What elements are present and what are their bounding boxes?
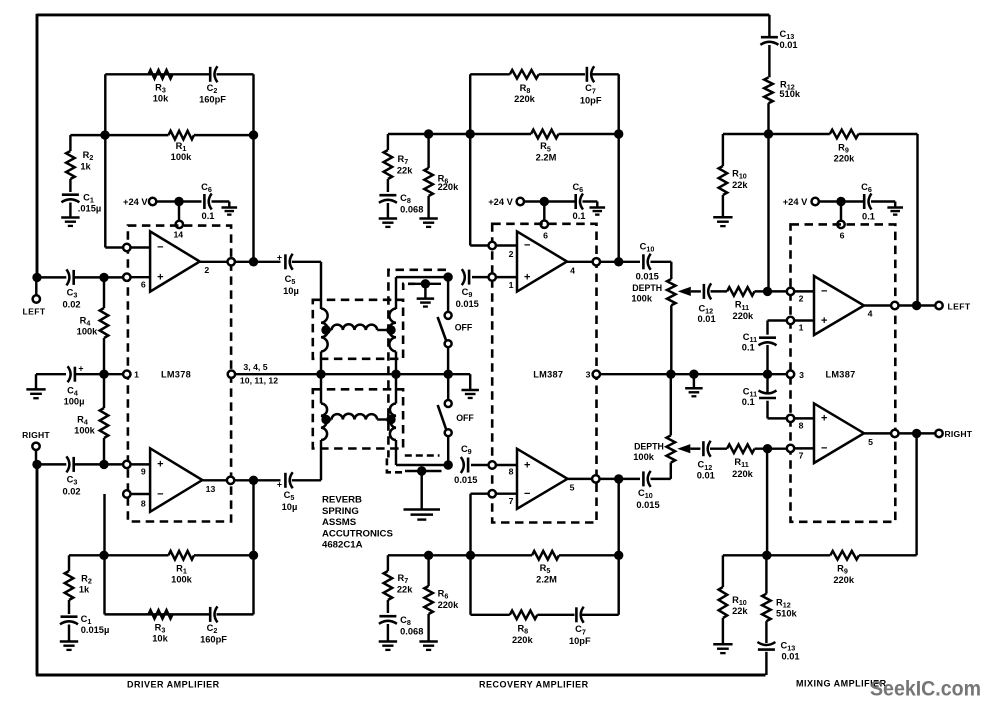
capacitor C13 (upper) bbox=[761, 36, 778, 39]
ground C6 recovery bbox=[596, 202, 598, 208]
junction R12/R9 node lower bbox=[762, 551, 771, 560]
wire R12 node to R11 upper bbox=[767, 134, 769, 291]
wire bus to switch lower bbox=[447, 374, 449, 400]
wire vertical right feedback lower bbox=[252, 480, 254, 614]
svg-text:OFF: OFF bbox=[455, 322, 473, 332]
svg-text:LEFT: LEFT bbox=[22, 307, 45, 317]
wire R12 to node upper bbox=[767, 103, 769, 134]
op-amp U2a LM387 upper bbox=[517, 231, 567, 291]
ground C8 lower bbox=[387, 624, 389, 642]
junction spring left upper bbox=[321, 325, 330, 334]
spring coil upper bbox=[326, 329, 332, 331]
svg-text:DEPTH: DEPTH bbox=[632, 283, 662, 293]
capacitor C3 (upper) bbox=[72, 270, 75, 285]
resistor R2 (lower) bbox=[68, 555, 70, 571]
resistor R10 (upper) bbox=[722, 134, 724, 166]
wire pin3 recovery to mixing bus bbox=[600, 373, 787, 375]
svg-text:0.02: 0.02 bbox=[62, 300, 80, 310]
pin circle 4 mixing bbox=[891, 302, 898, 309]
junction RIGHT input bbox=[32, 460, 41, 469]
svg-text:1: 1 bbox=[799, 323, 804, 333]
svg-text:3: 3 bbox=[586, 370, 591, 380]
svg-text:6: 6 bbox=[141, 279, 146, 289]
resistor R1 (lower) bbox=[169, 551, 195, 560]
wire pin1 to C11 upper bbox=[768, 319, 787, 321]
svg-text:DEPTH: DEPTH bbox=[634, 442, 664, 452]
junction case ground upper bbox=[421, 279, 430, 288]
wire feedback to minus recovery upper bbox=[469, 134, 471, 246]
junction output/R9 lower bbox=[912, 429, 921, 438]
op-amp U3a LM387 mixing upper bbox=[814, 276, 864, 335]
ground reverb case upper bbox=[424, 284, 426, 299]
wire right winding to bus upper bbox=[395, 352, 397, 375]
wire vertical right feedback upper (C2 row to output node) bbox=[252, 74, 254, 262]
pin circle output 13 bbox=[227, 477, 234, 484]
pin circle 2 recovery bbox=[489, 242, 496, 249]
ground C6 mixing bbox=[894, 202, 896, 208]
resistor R5 (lower) bbox=[532, 551, 559, 560]
resistor R11 (upper) bbox=[727, 287, 755, 296]
svg-text:+: + bbox=[821, 315, 827, 327]
svg-text:−: − bbox=[157, 242, 163, 254]
junction R6 top lower bbox=[424, 551, 433, 560]
svg-text:ASSMS: ASSMS bbox=[322, 517, 357, 528]
ground C1 upper bbox=[69, 203, 71, 218]
svg-text:0.1: 0.1 bbox=[742, 342, 755, 352]
ground C6 driver bbox=[228, 202, 230, 208]
wire R11 to pin2 mixing bbox=[755, 290, 787, 292]
capacitor C2 (upper) bbox=[209, 67, 212, 82]
svg-text:100k: 100k bbox=[171, 574, 193, 584]
resistor R3 (upper) bbox=[149, 70, 173, 79]
wire C4 to pin1 bbox=[75, 373, 123, 375]
wire center bus bbox=[235, 373, 470, 375]
svg-text:0.015: 0.015 bbox=[636, 500, 659, 510]
wire R9 to output vertical upper bbox=[916, 134, 918, 306]
terminal +24V mixing bbox=[812, 198, 819, 205]
svg-text:0.1: 0.1 bbox=[742, 397, 755, 407]
wire R2 tap upper bbox=[70, 134, 105, 136]
svg-text:+24 V: +24 V bbox=[123, 197, 148, 207]
capacitor C11 (lower) bbox=[759, 397, 776, 400]
wire top border to C13 bbox=[768, 15, 770, 37]
resistor R4 (upper) bbox=[103, 277, 105, 308]
svg-text:+24 V: +24 V bbox=[488, 197, 513, 207]
wire minus to triangle lower bbox=[131, 493, 151, 495]
pin circle plus upper LM378 (pin 6) bbox=[123, 274, 130, 281]
wire C10 to pot upper bbox=[651, 261, 672, 263]
wire minus to triangle mixing lower bbox=[794, 447, 814, 449]
ground reverb case lower bbox=[420, 471, 422, 510]
svg-text:0.068: 0.068 bbox=[400, 205, 423, 215]
svg-text:+: + bbox=[821, 413, 827, 425]
wire output upper LM378 bbox=[200, 261, 228, 263]
potentiometer DEPTH 100k upper bbox=[667, 279, 676, 305]
svg-text:REVERB: REVERB bbox=[322, 495, 362, 506]
potentiometer DEPTH 100k lower bbox=[667, 435, 676, 462]
ground C8 upper bbox=[387, 203, 389, 219]
svg-text:+: + bbox=[157, 459, 163, 471]
capacitor C12 (upper) bbox=[703, 284, 706, 299]
svg-text:5: 5 bbox=[570, 482, 575, 492]
capacitor C1 (lower) bbox=[61, 615, 78, 618]
pin circle 8 mixing bbox=[787, 415, 794, 422]
svg-text:5: 5 bbox=[868, 437, 873, 447]
svg-text:10µ: 10µ bbox=[282, 502, 298, 512]
svg-text:−: − bbox=[524, 240, 530, 252]
wire LEFT input row bbox=[37, 276, 66, 278]
svg-text:1: 1 bbox=[134, 370, 139, 380]
pin circle 7 recovery bbox=[489, 490, 496, 497]
pin circle 9 (plus lower LM378) bbox=[123, 461, 130, 468]
svg-text:6: 6 bbox=[543, 231, 548, 241]
coil input left winding upper bbox=[321, 309, 328, 352]
wire plus to triangle lower bbox=[131, 463, 151, 465]
wire C9 to pin8 recovery bbox=[471, 464, 488, 466]
pin circle 5 mixing bbox=[891, 430, 898, 437]
svg-text:100k: 100k bbox=[171, 152, 193, 162]
svg-text:22k: 22k bbox=[397, 585, 413, 595]
wire output to C5 upper bbox=[235, 261, 281, 263]
svg-text:0.01: 0.01 bbox=[780, 40, 798, 50]
ground C4 bbox=[35, 374, 37, 389]
svg-text:0.015: 0.015 bbox=[456, 299, 479, 309]
svg-text:10k: 10k bbox=[152, 634, 168, 644]
svg-text:0.015µ: 0.015µ bbox=[81, 625, 110, 635]
wire R10 row lower bbox=[723, 554, 767, 556]
svg-text:.015µ: .015µ bbox=[78, 204, 101, 214]
svg-text:0.1: 0.1 bbox=[202, 211, 215, 221]
wire output to C5 lower bbox=[234, 479, 280, 481]
svg-text:510k: 510k bbox=[779, 89, 801, 99]
wire minus to triangle upper bbox=[131, 246, 151, 248]
capacitor C8 (lower) bbox=[379, 615, 396, 618]
junction R5/C7 lower bbox=[614, 551, 623, 560]
wire R12 node to R11 lower bbox=[766, 449, 768, 556]
capacitor C5 (lower) bbox=[284, 473, 287, 488]
junction R5/C7 upper bbox=[614, 129, 623, 138]
svg-text:0.015: 0.015 bbox=[636, 271, 659, 281]
wire C12 to R11 lower bbox=[710, 447, 727, 449]
svg-text:+: + bbox=[78, 364, 83, 374]
svg-text:10, 11, 12: 10, 11, 12 bbox=[240, 376, 278, 386]
wire upper R3/C2 feedback row bbox=[105, 73, 209, 75]
wire LEFT terminal stub bbox=[35, 277, 37, 295]
svg-text:9: 9 bbox=[141, 466, 146, 476]
wire minus to triangle mixing upper bbox=[794, 290, 814, 292]
svg-text:10k: 10k bbox=[153, 94, 169, 104]
wire bias row lower bbox=[388, 554, 471, 556]
svg-text:SeekIC.com: SeekIC.com bbox=[870, 677, 981, 701]
junction R1 right lower bbox=[249, 551, 258, 560]
svg-text:−: − bbox=[821, 442, 827, 454]
wire output to C10 upper bbox=[600, 261, 640, 263]
pin circle 7 mixing bbox=[787, 445, 794, 452]
wire bus to C11 lower bbox=[766, 374, 768, 393]
svg-text:RECOVERY AMPLIFIER: RECOVERY AMPLIFIER bbox=[479, 679, 589, 689]
svg-text:OFF: OFF bbox=[456, 413, 474, 423]
op-amp U2b LM387 lower bbox=[517, 449, 568, 509]
wire R5 row upper bbox=[470, 133, 531, 135]
junction R1 right upper bbox=[249, 130, 258, 139]
junction pin6 tap mixing bbox=[836, 197, 845, 206]
wire R11 to pin7 mixing bbox=[755, 447, 787, 449]
capacitor C6 (mixing) bbox=[863, 194, 866, 209]
svg-text:2.2M: 2.2M bbox=[536, 153, 557, 163]
terminal RIGHT output bbox=[935, 430, 942, 437]
pin circle 8 (minus lower LM378) bbox=[123, 490, 130, 497]
wire R2 to C1 lower bbox=[68, 600, 70, 614]
resistor R9 (lower) bbox=[830, 551, 859, 560]
wire C11 to bus upper bbox=[766, 345, 768, 374]
op-amp U3b LM387 mixing lower bbox=[814, 403, 864, 463]
resistor R12 (lower) bbox=[765, 555, 767, 593]
wire C9 to pin1 recovery bbox=[472, 276, 489, 278]
wire RIGHT input row bbox=[37, 463, 66, 465]
svg-text:LM378: LM378 bbox=[161, 370, 191, 380]
junction pin6 tap recovery bbox=[540, 197, 549, 206]
svg-text:6: 6 bbox=[840, 231, 845, 241]
junction bias/feedback upper bbox=[466, 129, 475, 138]
wire pot to bus lower bbox=[670, 374, 672, 435]
svg-text:7: 7 bbox=[799, 451, 804, 461]
op-amp U1a LM378 upper bbox=[150, 231, 200, 291]
dashed box reverb output transducer bbox=[313, 389, 403, 448]
svg-text:+24 V: +24 V bbox=[783, 197, 808, 207]
wire pin14 stub bbox=[178, 202, 180, 225]
wire top border (LEFT input to C13 upper) bbox=[37, 13, 769, 16]
svg-text:SPRING: SPRING bbox=[322, 506, 359, 517]
wire C11 to pin8 lower bbox=[766, 401, 768, 419]
wire plus to triangle upper bbox=[131, 276, 151, 278]
ground R6 lower bbox=[427, 637, 429, 642]
resistor R10 (lower) bbox=[722, 555, 724, 587]
junction LEFT input bbox=[32, 273, 41, 282]
resistor R4 (lower) bbox=[103, 374, 105, 408]
svg-text:3, 4, 5: 3, 4, 5 bbox=[243, 362, 267, 372]
wire right winding to bus lower bbox=[395, 374, 397, 403]
junction spring right lower bbox=[386, 415, 395, 424]
junction output/R5 lower bbox=[614, 474, 623, 483]
wire C10 to pot lower bbox=[651, 478, 671, 480]
svg-text:100k: 100k bbox=[77, 327, 99, 337]
svg-text:0.068: 0.068 bbox=[400, 627, 423, 637]
svg-text:4: 4 bbox=[570, 266, 575, 276]
wire C2 to right vertical upper bbox=[217, 73, 254, 75]
capacitor C7 (lower) bbox=[575, 607, 578, 622]
wire output lower LM378 bbox=[202, 479, 227, 481]
ground center bus bbox=[469, 374, 471, 390]
junction C9 lower bbox=[444, 460, 453, 469]
junction R11/R12 node upper bbox=[763, 287, 772, 296]
resistor R7 (upper) bbox=[387, 134, 389, 150]
svg-text:220k: 220k bbox=[512, 635, 534, 645]
wire coil top to C9 row upper bbox=[395, 277, 397, 309]
junction output/feedback lower bbox=[249, 476, 258, 485]
wire R8 row left vertical lower bbox=[469, 555, 471, 615]
resistor R1 (upper) bbox=[169, 131, 195, 140]
svg-text:220k: 220k bbox=[834, 154, 856, 164]
wire output to LEFT bbox=[899, 304, 936, 306]
svg-text:0.02: 0.02 bbox=[62, 487, 80, 497]
svg-text:−: − bbox=[524, 488, 530, 500]
svg-text:220k: 220k bbox=[732, 469, 754, 479]
op-amp U1b LM378 lower bbox=[150, 448, 202, 512]
ground C1 lower bbox=[68, 625, 70, 642]
terminal +24V driver bbox=[149, 198, 156, 205]
capacitor C3 (lower) bbox=[72, 457, 75, 472]
terminal LEFT output bbox=[935, 302, 942, 309]
junction R6 top upper bbox=[424, 129, 433, 138]
svg-text:7: 7 bbox=[509, 496, 514, 506]
coil right winding lower bbox=[390, 404, 396, 441]
wire R12 to C13 lower bbox=[765, 621, 767, 643]
wire output to C10 lower bbox=[600, 478, 641, 480]
svg-text:22k: 22k bbox=[732, 606, 748, 616]
wire R9 row upper bbox=[769, 133, 830, 135]
svg-text:0.015: 0.015 bbox=[454, 475, 477, 485]
wire R10 row upper bbox=[723, 133, 769, 135]
junction bus switch bbox=[444, 370, 453, 379]
svg-text:100k: 100k bbox=[74, 426, 96, 436]
ground mid-bus bbox=[693, 374, 695, 388]
svg-text:+: + bbox=[157, 272, 163, 284]
wire left winding to bus lower bbox=[320, 374, 322, 403]
wire C13 to bottom border bbox=[765, 652, 767, 675]
dashed bracket upper case exit bbox=[403, 284, 417, 290]
case ground wire lower bbox=[405, 470, 442, 472]
svg-text:220k: 220k bbox=[438, 600, 460, 610]
svg-text:220k: 220k bbox=[438, 182, 460, 192]
resistor R11 (lower) bbox=[727, 444, 755, 453]
resistor R5 (upper) bbox=[531, 130, 559, 139]
svg-text:13: 13 bbox=[206, 484, 216, 494]
svg-text:160pF: 160pF bbox=[200, 635, 227, 645]
wire C6 to ground recovery bbox=[583, 200, 598, 202]
junction output/feedback upper bbox=[249, 257, 258, 266]
svg-text:RIGHT: RIGHT bbox=[945, 429, 973, 439]
wire switch to C9 junction lower bbox=[447, 436, 449, 465]
junction bus left coil bbox=[316, 370, 325, 379]
wire +24V to C6 recovery bbox=[524, 200, 575, 202]
wire R1 row lower bbox=[104, 554, 169, 556]
wire bias row upper bbox=[388, 133, 470, 135]
svg-text:ACCUTRONICS: ACCUTRONICS bbox=[322, 528, 393, 539]
wire coil bottom to C9 row lower bbox=[396, 464, 448, 466]
capacitor C8 (upper) bbox=[379, 194, 396, 197]
wire R8/C7 row lower bbox=[471, 614, 510, 616]
wire output mixing upper bbox=[864, 304, 891, 306]
junction R11/R12 node lower bbox=[763, 444, 772, 453]
dashed box recovery LM387 bbox=[492, 224, 596, 523]
wire left border lower (RIGHT input node to bottom border) bbox=[36, 464, 39, 675]
svg-text:220k: 220k bbox=[514, 94, 536, 104]
resistor R8 (lower) bbox=[510, 611, 538, 620]
wire plus to triangle mixing upper bbox=[794, 319, 814, 321]
svg-text:0.1: 0.1 bbox=[862, 212, 875, 222]
svg-text:1k: 1k bbox=[79, 585, 90, 595]
wire C5 to coil lower bbox=[292, 479, 321, 481]
svg-text:1: 1 bbox=[509, 280, 514, 290]
wire C12 to R11 upper bbox=[711, 290, 728, 292]
wire minus to triangle recovery upper bbox=[496, 244, 517, 246]
capacitor C5 (upper) bbox=[284, 254, 287, 269]
svg-text:+: + bbox=[277, 479, 282, 489]
svg-text:8: 8 bbox=[509, 467, 514, 477]
junction bias/feedback lower bbox=[466, 551, 475, 560]
wire feedback to minus recovery lower bbox=[471, 492, 489, 494]
dashed box reverb input transducer bbox=[313, 300, 403, 359]
svg-text:0.01: 0.01 bbox=[697, 471, 715, 481]
junction output/C7 upper bbox=[614, 257, 623, 266]
wire minus to triangle recovery lower bbox=[496, 492, 517, 494]
wire R5 row lower bbox=[471, 554, 533, 556]
svg-text:0.01: 0.01 bbox=[782, 651, 800, 661]
pin circle 4 recovery bbox=[593, 258, 600, 265]
capacitor C9 (upper) bbox=[468, 270, 471, 285]
svg-text:3: 3 bbox=[799, 370, 804, 380]
dashed bracket lower case exit bbox=[405, 454, 440, 457]
wire RIGHT terminal stub bbox=[35, 450, 37, 464]
junction pot bus bbox=[666, 370, 675, 379]
wire R8/C7 row upper bbox=[470, 73, 510, 75]
svg-text:DRIVER AMPLIFIER: DRIVER AMPLIFIER bbox=[127, 679, 220, 689]
svg-text:+: + bbox=[277, 252, 282, 262]
junction case ground lower bbox=[417, 466, 426, 475]
junction pin14 tap bbox=[174, 197, 183, 206]
wire C5 to coil upper bbox=[292, 261, 321, 263]
svg-text:160pF: 160pF bbox=[199, 95, 226, 105]
svg-text:LM387: LM387 bbox=[533, 370, 563, 380]
svg-text:0.1: 0.1 bbox=[573, 211, 586, 221]
wiper arrow lower bbox=[677, 444, 690, 453]
resistor R6 (lower) bbox=[427, 555, 429, 586]
wire R9 row lower bbox=[767, 554, 831, 556]
svg-text:510k: 510k bbox=[776, 608, 798, 618]
ground R10 upper bbox=[722, 195, 724, 217]
svg-text:10pF: 10pF bbox=[569, 636, 591, 646]
terminal +24V recovery bbox=[517, 198, 524, 205]
wire output to RIGHT bbox=[899, 432, 936, 434]
capacitor C12 (lower) bbox=[702, 441, 705, 456]
wire ground to C4 bbox=[36, 373, 66, 375]
junction C9 upper bbox=[443, 272, 452, 281]
svg-text:10pF: 10pF bbox=[580, 96, 602, 106]
resistor R3 (lower) bbox=[149, 610, 173, 619]
pin circle 1 LM378 bbox=[123, 371, 130, 378]
capacitor C4 100u polarized bbox=[74, 367, 77, 382]
pin 14 circle bbox=[176, 221, 183, 228]
capacitor C9 (lower) bbox=[467, 458, 470, 473]
dashed box reverb case bbox=[388, 270, 446, 458]
wire left winding to bus upper bbox=[320, 352, 322, 375]
wire C6 to ground mixing bbox=[871, 200, 895, 202]
switch S2 OFF lower bbox=[445, 400, 452, 407]
pin circle minus upper LM378 bbox=[123, 244, 130, 251]
pin circle 2 mixing bbox=[787, 288, 794, 295]
wire feedback down to minus input upper bbox=[104, 135, 106, 247]
capacitor C2 (lower) bbox=[209, 607, 212, 622]
terminal RIGHT input bbox=[32, 443, 39, 450]
junction mid-bus ground bbox=[689, 370, 698, 379]
wire C9 junction to switch upper bbox=[447, 277, 449, 312]
wire C6 to ground driver bbox=[212, 200, 230, 202]
svg-text:0.01: 0.01 bbox=[698, 314, 716, 324]
svg-text:−: − bbox=[821, 285, 827, 297]
wire output recovery lower bbox=[568, 478, 593, 480]
coil output right winding upper bbox=[389, 309, 396, 352]
wire C13 to R12 upper bbox=[768, 45, 770, 77]
